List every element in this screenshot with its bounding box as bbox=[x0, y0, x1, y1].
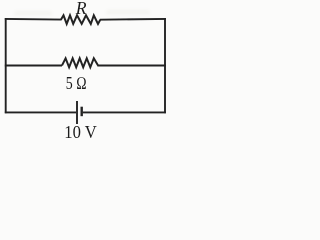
battery V1 short plate bbox=[80, 107, 82, 117]
svg-text:R: R bbox=[75, 0, 87, 18]
wire right vertical edge bbox=[164, 18, 166, 113]
wire top left segment bbox=[5, 18, 62, 21]
svg-text:10 V: 10 V bbox=[64, 122, 97, 142]
wire bottom right segment bbox=[83, 111, 166, 113]
resistor R1 zigzag bbox=[61, 15, 100, 24]
faint scan smudge top-left bbox=[14, 11, 52, 16]
wire left vertical edge bbox=[5, 18, 7, 113]
wire middle right segment bbox=[97, 65, 166, 67]
wire middle left segment bbox=[5, 65, 62, 67]
battery V1 long plate bbox=[76, 101, 78, 124]
svg-text:5 Ω: 5 Ω bbox=[66, 73, 87, 93]
resistor R2 zigzag (5 ohm) bbox=[62, 58, 98, 67]
faint scan smudge top-right bbox=[106, 10, 150, 15]
wire top right segment bbox=[100, 18, 166, 21]
wire bottom left segment bbox=[5, 111, 76, 113]
